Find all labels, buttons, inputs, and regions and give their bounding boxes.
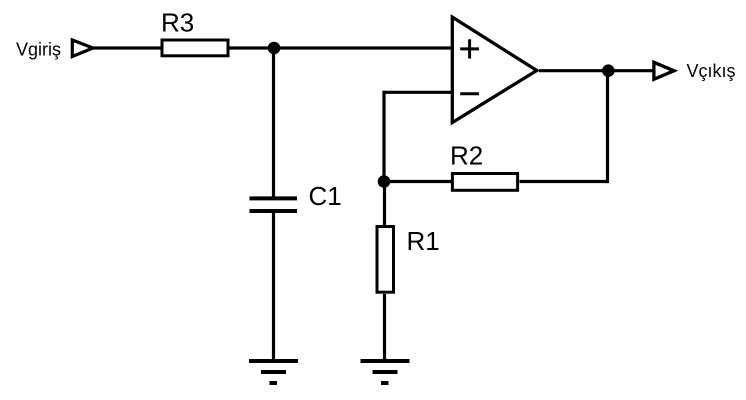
resistor R2 (452, 174, 517, 191)
wire input to R3 (94, 46, 162, 49)
capacitor C1 plate bottom (250, 209, 298, 213)
ground symbol under C1 (249, 361, 298, 383)
wire op-amp output to output port (539, 69, 653, 72)
svg-text:R1: R1 (407, 226, 440, 256)
svg-text:Vgiriş: Vgiriş (16, 40, 61, 60)
svg-text:R3: R3 (161, 7, 194, 37)
wire C1 to ground (272, 212, 275, 361)
wire inverting input down to node B (382, 91, 385, 182)
wire node B to R2 (384, 180, 451, 183)
resistor R1 (377, 227, 394, 293)
node C output junction dot (602, 64, 615, 77)
resistor R3 (162, 40, 228, 56)
svg-text:C1: C1 (309, 181, 342, 211)
wire node A down to C1 (272, 48, 275, 198)
wire R1 to ground (383, 294, 386, 361)
node A junction dot (268, 42, 281, 55)
op-amp minus input symbol (460, 92, 479, 95)
ground symbol under R1 (361, 361, 410, 383)
wire R2 to feedback corner (520, 180, 608, 183)
wire feedback vertical up to output node (606, 71, 609, 183)
op-amp plus input symbol (460, 39, 479, 58)
capacitor C1 plate top (250, 196, 298, 200)
wire inverting input horizontal (384, 91, 452, 94)
svg-text:Vçıkış: Vçıkış (687, 61, 736, 81)
wire node B down to R1 (383, 182, 386, 226)
svg-text:R2: R2 (450, 141, 483, 171)
node B junction dot (378, 175, 391, 188)
output port Vcikis triangle (654, 62, 674, 79)
op-amp U1 triangle (452, 17, 537, 122)
wire R3 to op-amp noninverting input (229, 46, 452, 49)
input port Vgiris triangle (72, 40, 93, 57)
